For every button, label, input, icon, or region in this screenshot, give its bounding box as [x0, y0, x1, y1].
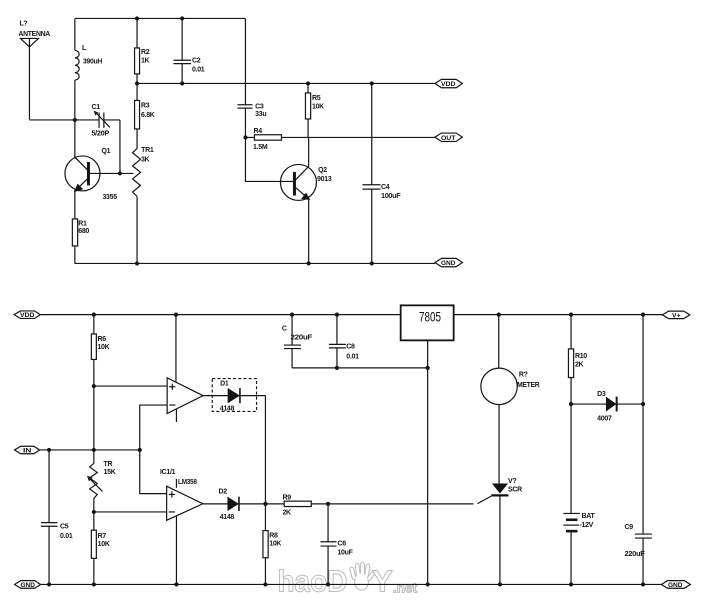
- junction D1/D2/R8: [263, 502, 267, 506]
- svg-text:Y: Y: [372, 563, 393, 598]
- svg-text:R7: R7: [98, 533, 107, 540]
- resistor R9: [284, 501, 311, 506]
- terminal flag GND bottom left: [15, 581, 41, 589]
- junction C8 top: [335, 313, 339, 317]
- svg-text:SCR: SCR: [508, 486, 522, 493]
- terminal flag GND top: [435, 258, 462, 267]
- svg-text:1K: 1K: [141, 57, 150, 64]
- junction IN/op2 plus: [138, 448, 142, 452]
- svg-text:R2: R2: [141, 49, 150, 56]
- junction TR1/GND: [135, 261, 139, 265]
- svg-text:0.01: 0.01: [60, 533, 73, 540]
- svg-text:R5: R5: [312, 95, 321, 102]
- junction R5 top: [306, 81, 310, 85]
- junction C5 top: [47, 448, 51, 452]
- junction SCR/GND: [498, 582, 502, 586]
- resistor R5: [305, 83, 310, 137]
- capacitor C5: [41, 450, 58, 585]
- svg-text:C9: C9: [624, 524, 633, 531]
- svg-text:D1: D1: [220, 381, 229, 388]
- resistor R10: [568, 315, 573, 404]
- junction D3 cathode column: [641, 402, 645, 406]
- wire GND rail top section: [75, 262, 435, 264]
- capacitor C8: [329, 315, 346, 368]
- svg-text:R9: R9: [282, 495, 291, 502]
- svg-text:R3: R3: [141, 102, 150, 109]
- thermistor TR: [87, 450, 103, 512]
- junction C4 top: [370, 81, 374, 85]
- svg-text:ANTENNA: ANTENNA: [18, 31, 50, 38]
- junction R6 bottom: [92, 384, 96, 388]
- wire VDD rail bottom section right: [454, 314, 663, 316]
- terminal flag V+: [662, 311, 689, 319]
- svg-text:10K: 10K: [98, 541, 110, 548]
- terminal flag GND bottom right: [661, 581, 690, 589]
- wire R6 to op1 plus input: [94, 385, 167, 387]
- svg-text:-12V: -12V: [579, 522, 593, 529]
- svg-text:C4: C4: [381, 184, 390, 191]
- wire L top: [74, 18, 76, 50]
- op-amp U2 (IC1/1 LM358): [167, 479, 203, 585]
- watermark haoDIY.net: [277, 562, 417, 598]
- resistor R6: [91, 315, 96, 386]
- svg-text:Q2: Q2: [318, 167, 327, 174]
- svg-text:C6: C6: [337, 541, 346, 548]
- svg-text:METER: METER: [517, 382, 540, 389]
- junction TR bottom / op2 minus: [92, 510, 96, 514]
- junction 7805 gnd: [426, 366, 430, 370]
- junction op1 V+: [174, 313, 178, 317]
- svg-text:C: C: [282, 326, 287, 333]
- node A junction: [73, 118, 77, 122]
- junction C6/GND: [326, 582, 330, 586]
- svg-text:390uH: 390uH: [83, 58, 102, 65]
- junction C3/R4: [243, 135, 247, 139]
- svg-text:TR: TR: [104, 461, 113, 468]
- svg-text:220uF: 220uF: [290, 335, 313, 342]
- svg-text:C5: C5: [60, 523, 69, 530]
- wire IN net: [40, 449, 140, 451]
- svg-text:Q1: Q1: [101, 148, 110, 155]
- thyristor V? SCR: [477, 483, 508, 584]
- svg-text:15K: 15K: [104, 469, 116, 476]
- svg-text:0.01: 0.01: [346, 353, 359, 360]
- wire OUT net: [281, 136, 435, 138]
- svg-text:VDD: VDD: [441, 81, 456, 88]
- junction C2 bottom: [180, 81, 184, 85]
- svg-text:D2: D2: [218, 489, 227, 496]
- junction R2 bottom: [135, 81, 139, 85]
- battery BAT: [563, 404, 580, 584]
- wire op1 V+ pin: [175, 315, 177, 383]
- capacitor C1 (trimmer): [75, 110, 120, 128]
- wire L bottom: [74, 80, 76, 120]
- svg-text:4007: 4007: [597, 416, 612, 423]
- svg-text:3K: 3K: [141, 156, 150, 163]
- wire VDD rail top section: [137, 82, 435, 84]
- junction R10/BAT: [569, 402, 573, 406]
- svg-text:LM358: LM358: [178, 479, 197, 486]
- resistor R2: [135, 18, 140, 83]
- potentiometer TR1: [133, 148, 141, 196]
- antenna L? symbol: [20, 38, 38, 119]
- wire top rail: [75, 17, 246, 19]
- junction R10 top: [569, 313, 573, 317]
- resistor R1: [72, 219, 77, 264]
- transistor Q2: [280, 137, 316, 263]
- svg-text:4148: 4148: [220, 406, 235, 413]
- capacitor C (220uF): [284, 315, 301, 368]
- svg-text:7805: 7805: [419, 309, 441, 324]
- svg-text:R1: R1: [78, 220, 87, 227]
- svg-text:C3: C3: [255, 103, 264, 110]
- svg-text:L?: L?: [19, 20, 27, 27]
- wire right column V+ to D3: [642, 315, 644, 404]
- resistor R8: [263, 504, 268, 585]
- svg-text:GND: GND: [668, 582, 683, 589]
- junction R6 top: [92, 313, 96, 317]
- svg-text:IC1/1: IC1/1: [160, 469, 176, 476]
- wire IN to op2 plus input: [140, 450, 167, 494]
- svg-text:2K: 2K: [282, 509, 291, 516]
- svg-text:TR1: TR1: [141, 147, 154, 154]
- junction R2 top: [135, 16, 139, 20]
- resistor R7: [91, 512, 96, 585]
- wire top rail right drop: [244, 18, 246, 83]
- junction C5/GND: [47, 582, 51, 586]
- svg-text:.net: .net: [393, 580, 418, 595]
- junction C2 top: [180, 16, 184, 20]
- svg-text:GND: GND: [20, 582, 35, 589]
- capacitor C4: [362, 83, 380, 263]
- svg-text:10K: 10K: [312, 103, 324, 110]
- svg-text:220uF: 220uF: [624, 551, 645, 558]
- wire op1 minus input: [140, 405, 167, 450]
- wire TR1 bottom: [136, 196, 138, 263]
- capacitor C2: [173, 18, 191, 83]
- junction cap C top: [290, 313, 294, 317]
- terminal flag IN: [15, 446, 40, 454]
- wire C3 node to Q2 base: [245, 137, 280, 181]
- svg-text:33u: 33u: [255, 111, 266, 118]
- svg-text:D3: D3: [597, 391, 606, 398]
- junction Q2 emitter/GND: [307, 261, 311, 265]
- junction C4/GND: [370, 261, 374, 265]
- svg-text:9013: 9013: [317, 176, 332, 183]
- svg-text:10uF: 10uF: [337, 550, 353, 557]
- junction TR top: [92, 448, 96, 452]
- capacitor C3: [237, 83, 252, 137]
- svg-text:V?: V?: [508, 478, 516, 485]
- transistor Q1: [65, 120, 134, 219]
- wire R6 node down to IN net: [93, 386, 95, 450]
- diode D1 dashed box: [212, 379, 256, 412]
- resistor R3: [135, 83, 140, 148]
- junction C6 top: [326, 502, 330, 506]
- wire op2 minus input: [94, 511, 167, 513]
- svg-text:C2: C2: [192, 57, 201, 64]
- wire GND rail bottom section: [41, 583, 662, 585]
- terminal flag OUT: [435, 133, 462, 142]
- junction BAT/GND: [569, 582, 573, 586]
- svg-text:R8: R8: [269, 533, 278, 540]
- wire VDD rail bottom section left: [40, 314, 400, 316]
- svg-text:BAT: BAT: [581, 513, 595, 520]
- svg-text:10K: 10K: [97, 344, 109, 351]
- wire D3 net: [571, 403, 643, 405]
- wire C1 down to Q1 base: [119, 120, 121, 174]
- svg-text:VDD: VDD: [20, 312, 35, 319]
- wire antenna to node A: [29, 119, 74, 121]
- inductor L: [75, 50, 79, 80]
- terminal flag VDD bottom: [14, 311, 40, 319]
- diode D3: [606, 397, 617, 412]
- resistor R4: [245, 135, 281, 140]
- svg-text:OUT: OUT: [441, 135, 456, 142]
- svg-text:3355: 3355: [102, 194, 117, 201]
- svg-text:C1: C1: [91, 104, 100, 111]
- junction C1/base: [118, 171, 122, 175]
- svg-text:R10: R10: [575, 353, 587, 360]
- meter R?: [481, 315, 517, 484]
- capacitor C6: [320, 504, 336, 585]
- svg-text:6.8K: 6.8K: [141, 112, 155, 119]
- op-amp U1 (IC1 first half): [167, 378, 203, 422]
- wire R9 to SCR gate: [311, 503, 473, 505]
- diode D1: [203, 388, 265, 403]
- capacitor C9: [635, 404, 652, 584]
- svg-text:V+: V+: [672, 312, 681, 319]
- junction C9/GND: [641, 582, 645, 586]
- junction R7/GND: [92, 582, 96, 586]
- svg-text:10K: 10K: [269, 541, 281, 548]
- svg-text:IN: IN: [23, 448, 32, 455]
- junction C8 bottom: [335, 366, 339, 370]
- diode D2: [203, 497, 284, 511]
- svg-text:0.01: 0.01: [192, 66, 205, 73]
- svg-text:R6: R6: [97, 336, 106, 343]
- svg-text:2K: 2K: [575, 361, 584, 368]
- svg-text:GND: GND: [441, 260, 456, 267]
- svg-text:100uF: 100uF: [381, 193, 402, 200]
- svg-text:R4: R4: [253, 128, 262, 135]
- terminal flag VDD top: [435, 79, 462, 88]
- svg-text:1.5M: 1.5M: [253, 144, 268, 151]
- junction R8/GND: [263, 582, 267, 586]
- svg-text:5/20P: 5/20P: [91, 130, 109, 137]
- junction meter top: [497, 313, 501, 317]
- wire C/C8 bottom to 7805 gnd: [292, 367, 428, 369]
- junction 7805gnd/GND: [426, 582, 430, 586]
- wire D1 output down: [264, 396, 266, 504]
- regulator 7805: [401, 305, 454, 584]
- svg-text:C8: C8: [346, 344, 355, 351]
- svg-text:4148: 4148: [220, 514, 235, 521]
- junction right column top: [641, 313, 645, 317]
- svg-text:haoD: haoD: [277, 563, 347, 598]
- svg-text:680: 680: [78, 228, 89, 235]
- junction op2 V-/GND: [174, 582, 178, 586]
- svg-text:R?: R?: [519, 371, 528, 378]
